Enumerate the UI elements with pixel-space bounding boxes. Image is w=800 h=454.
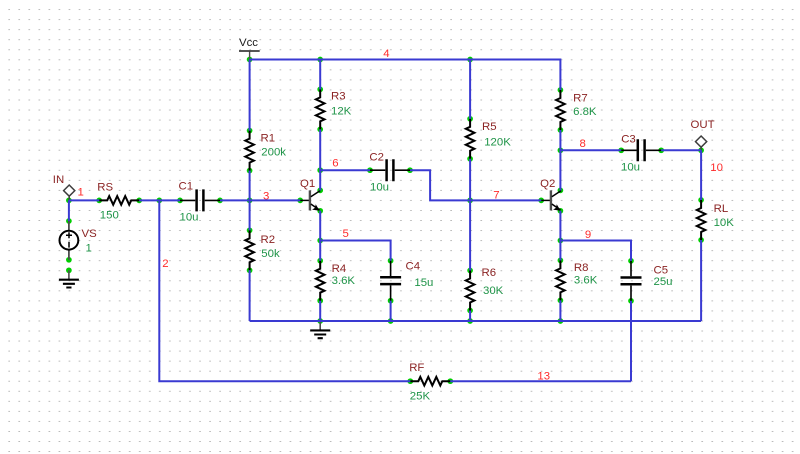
junction node 7 [467, 198, 473, 204]
ground main [310, 321, 330, 338]
svg-text:3.6K: 3.6K [574, 275, 598, 287]
svg-text:R7: R7 [573, 92, 588, 104]
svg-text:6.8K: 6.8K [573, 106, 597, 118]
wire node 9: Q2 emitter to R8 [559, 211, 561, 261]
wire node 3: R1 bottom to R2 top [249, 171, 251, 231]
junction ground rail at R8 [558, 318, 564, 324]
junction node 1 [66, 198, 72, 204]
svg-text:10u: 10u [370, 182, 389, 194]
svg-text:9: 9 [585, 229, 591, 241]
wire node 2: down and right to RF [159, 200, 410, 381]
svg-text:1: 1 [86, 243, 92, 255]
junction node 10 at OUT [698, 147, 704, 153]
wire node 1: IN to RS and down to VS [69, 200, 99, 221]
svg-text:25u: 25u [654, 276, 673, 288]
capacitor C1 [177, 181, 223, 224]
svg-text:R2: R2 [261, 234, 276, 246]
svg-text:IN: IN [53, 174, 64, 186]
wire node 8: R7 to Q2 collector [559, 130, 561, 190]
capacitor C2 [367, 152, 413, 194]
svg-text:R3: R3 [331, 90, 346, 102]
wire node 7: C2 to Q2 base [410, 170, 541, 200]
wire node 4: Vcc rail [250, 60, 561, 91]
wire ground rail [250, 240, 701, 321]
resistor R6 [466, 267, 504, 313]
capacitor C4 [380, 258, 433, 304]
wire node 8: C3 to OUT [661, 149, 701, 151]
junction node 8 [558, 147, 564, 153]
junction node 3 [247, 198, 253, 204]
resistor R4 [316, 258, 356, 304]
junction node 4 at R3 [317, 57, 323, 63]
svg-text:120K: 120K [484, 137, 511, 149]
resistor RL [697, 197, 734, 243]
svg-text:OUT: OUT [691, 119, 715, 131]
svg-text:R5: R5 [482, 121, 497, 133]
transistor Q1 [297, 178, 323, 214]
svg-text:15u: 15u [414, 277, 433, 289]
resistor RF [407, 362, 453, 403]
svg-text:R1: R1 [261, 132, 276, 144]
wire node 8: to C3 [560, 149, 621, 151]
svg-text:R6: R6 [482, 267, 497, 279]
junction node 9 [558, 238, 564, 244]
wire node 6: R3 to C2 and Q1 collector [320, 129, 370, 190]
svg-text:10u: 10u [621, 162, 640, 174]
junction ground rail at R6 [467, 318, 473, 324]
svg-text:25K: 25K [410, 391, 431, 403]
junction node 4 at R5 [467, 57, 473, 63]
port IN [53, 174, 75, 200]
junction Vcc node 4 [247, 57, 253, 63]
svg-text:C4: C4 [406, 261, 421, 273]
resistor R7 [556, 87, 597, 133]
svg-text:6: 6 [332, 158, 338, 170]
resistor R2 [245, 227, 280, 273]
svg-text:RL: RL [714, 203, 729, 215]
svg-text:5: 5 [343, 228, 349, 240]
svg-text:RF: RF [409, 362, 424, 374]
resistor R1 [245, 128, 286, 174]
svg-text:12K: 12K [331, 106, 352, 118]
resistor R8 [556, 258, 598, 304]
ground at VS [59, 267, 79, 287]
svg-text:C1: C1 [179, 181, 194, 193]
wire node 13: RF to C5 bottom [450, 301, 631, 381]
svg-text:10u: 10u [180, 212, 199, 224]
transistor Q2 [538, 178, 563, 213]
power Vcc [239, 37, 260, 60]
junction node 6 [317, 167, 323, 173]
junction node 2 [156, 198, 162, 204]
svg-text:50k: 50k [261, 248, 280, 260]
svg-text:200k: 200k [261, 147, 286, 159]
junction ground rail at R4 [317, 318, 323, 324]
resistor RS [96, 181, 142, 221]
wire node 9: to C5 [560, 241, 631, 261]
svg-text:VS: VS [82, 228, 98, 240]
junction ground rail at C4 [388, 318, 394, 324]
svg-text:Q1: Q1 [300, 178, 315, 190]
junction node 5 [317, 238, 323, 244]
wire node 2: RS to C1 [139, 199, 180, 201]
wire node 10: OUT to RL [700, 150, 702, 200]
capacitor C3 [618, 134, 664, 174]
svg-text:30K: 30K [483, 285, 504, 297]
wire node 7: R5 bottom to R6 top [469, 159, 471, 271]
svg-text:R8: R8 [574, 262, 589, 274]
wire node 5: Q1 emitter to R4 and C4 [320, 211, 390, 261]
svg-text:RS: RS [97, 181, 113, 193]
wire node 3: C1 to Q1 base [220, 199, 300, 201]
port OUT [691, 119, 715, 150]
wire node 4: rail to R5 [469, 60, 471, 119]
svg-text:C5: C5 [654, 265, 669, 277]
svg-text:2: 2 [162, 258, 168, 270]
svg-text:Vcc: Vcc [239, 37, 258, 49]
capacitor C5 [621, 258, 673, 304]
svg-text:C2: C2 [369, 152, 384, 164]
svg-text:150: 150 [100, 209, 119, 221]
svg-text:10K: 10K [714, 217, 735, 229]
wire node 4: Vcc to R1 [249, 60, 251, 131]
svg-text:1: 1 [78, 186, 84, 198]
resistor R3 [316, 87, 352, 133]
resistor R5 [466, 116, 511, 162]
svg-text:8: 8 [580, 138, 586, 150]
svg-text:10: 10 [710, 162, 723, 174]
source VS [60, 218, 98, 263]
svg-text:C3: C3 [621, 134, 636, 146]
svg-text:3.6K: 3.6K [332, 275, 356, 287]
wire node 4: rail to R3 [319, 60, 321, 90]
svg-text:4: 4 [383, 48, 389, 60]
svg-text:Q2: Q2 [540, 178, 555, 190]
svg-text:R4: R4 [332, 263, 347, 275]
